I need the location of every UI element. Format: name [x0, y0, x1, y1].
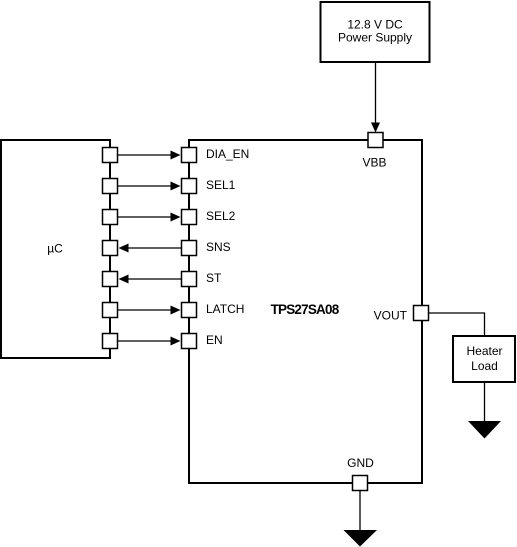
ground symbol at heater load	[468, 421, 501, 439]
svg-text:VOUT: VOUT	[374, 309, 408, 323]
pin ST	[182, 271, 223, 286]
svg-text:Load: Load	[471, 359, 498, 373]
wire µC to DIA_EN	[118, 151, 181, 160]
pin VOUT	[374, 306, 429, 323]
wire power supply to VBB	[371, 62, 380, 133]
svg-text:DIA_EN: DIA_EN	[206, 147, 249, 161]
block U1 TPS27SA08 smart high-side switch	[189, 140, 422, 483]
svg-text:EN: EN	[206, 333, 223, 347]
wire SNS to µC	[119, 244, 182, 253]
block 12.8 V DC Power Supply	[321, 2, 430, 62]
pin SNS	[182, 240, 231, 255]
svg-text:SEL1: SEL1	[206, 178, 236, 192]
svg-text:µC: µC	[47, 242, 63, 256]
pin EN	[182, 333, 223, 348]
pin SEL1	[182, 178, 236, 193]
wire GND to ground	[359, 491, 361, 534]
wire µC to LATCH	[118, 306, 181, 315]
wire VOUT to Heater Load	[429, 313, 485, 336]
wire ST to µC	[119, 275, 182, 284]
µC port pin 7	[103, 334, 118, 349]
block U2 microcontroller µC	[1, 140, 110, 358]
svg-text:GND: GND	[347, 456, 374, 470]
svg-text:SEL2: SEL2	[206, 209, 236, 223]
wire µC to SEL1	[118, 182, 181, 191]
pin VBB	[362, 133, 386, 170]
µC port pin 6	[103, 303, 118, 318]
pin LATCH	[182, 302, 245, 317]
svg-text:LATCH: LATCH	[206, 302, 244, 316]
wire Heater Load to ground	[484, 382, 486, 425]
block Heater Load	[453, 336, 515, 382]
ground symbol at GND	[344, 530, 378, 547]
wire µC to EN	[118, 337, 181, 346]
µC port pin 1	[103, 148, 118, 163]
svg-text:ST: ST	[206, 271, 222, 285]
µC port pin 5	[103, 272, 118, 287]
pin GND	[347, 456, 374, 491]
pin SEL2	[182, 209, 236, 224]
svg-text:VBB: VBB	[362, 156, 386, 170]
svg-text:12.8 V DC: 12.8 V DC	[347, 18, 403, 32]
svg-text:TPS27SA08: TPS27SA08	[271, 302, 340, 317]
µC port pin 3	[103, 210, 118, 225]
µC port pin 2	[103, 179, 118, 194]
pin DIA_EN	[182, 147, 250, 162]
wire µC to SEL2	[118, 213, 181, 222]
svg-text:SNS: SNS	[206, 240, 231, 254]
svg-text:Power Supply: Power Supply	[338, 31, 412, 45]
svg-text:Heater: Heater	[466, 344, 502, 358]
µC port pin 4	[103, 241, 118, 256]
